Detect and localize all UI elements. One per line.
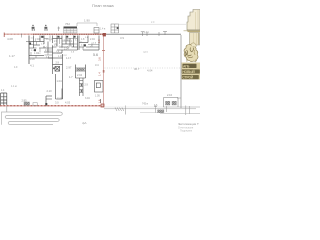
svg-text:План этажа: План этажа [92,3,114,8]
svg-text:2.85: 2.85 [22,99,28,103]
bottom-left narrow room stack [1,93,7,105]
tan leafy blob mass right side [184,43,198,62]
extra fine structure lines in cluster [29,36,99,59]
svg-text:2.04: 2.04 [77,73,83,77]
tiny room labels in cluster [34,38,95,58]
svg-text:742 в: 742 в [142,103,149,106]
small mark left of porch [58,27,61,32]
staircase ladder [80,78,84,96]
top wall left light segment [4,33,33,35]
tall left room 1.04 [56,74,63,99]
small tick below wall left [21,34,23,38]
svg-text:1.6: 1.6 [98,39,101,43]
bracket line above wall [77,23,97,26]
tick T down at 143 [141,32,145,37]
red junction block at wall end [101,104,105,108]
slash hash marks [115,106,190,116]
square room right of ladder [95,81,104,93]
right mid room block [76,65,86,79]
svg-text:31.5: 31.5 [57,98,62,101]
svg-text:1.44: 1.44 [144,30,150,34]
faint long line above big room [119,23,186,25]
svg-text:НОВЫЙ: НОВЫЙ [182,70,195,74]
second thin dim line [140,111,157,113]
stub at x29 top tick [26,41,29,43]
svg-text:2.04: 2.04 [90,38,95,41]
svg-text:5.6: 5.6 [93,53,98,57]
svg-text:2.04: 2.04 [35,38,40,41]
tan stamp text block [182,63,201,80]
svg-text:3.9: 3.9 [120,36,124,40]
dimension line along bottom [104,108,196,110]
bottom middle rooms [46,89,62,106]
svg-text:1.17: 1.17 [66,56,72,60]
mid stair/elevator block [48,54,63,74]
svg-text:3.6: 3.6 [97,57,101,61]
svg-text:4.04: 4.04 [147,69,153,73]
svg-text:1.08: 1.08 [30,57,36,61]
room block A horizontals [29,41,44,43]
porch block above wall: dark top bar + light grid body [64,28,78,33]
room block A verticals [33,36,35,49]
top wall main hatched segment [33,33,107,35]
bottom right structure above wall [164,98,179,108]
svg-text:М.У: М.У [144,50,149,54]
serpentine coil bottom-left [2,112,63,125]
dark tick near Г room [45,103,47,105]
svg-text:Подрядчик: Подрядчик [180,130,193,133]
left vertical wall x=29 [28,36,30,65]
svg-text:Экспликация Т: Экспликация Т [178,122,199,126]
small grid table right of red junction [111,24,119,33]
svg-text:3.04: 3.04 [85,97,90,100]
door opening gaps (white) [37,43,87,50]
hydrant marker symbol 1 above wall [32,25,35,31]
hatched block on dim line [157,110,164,113]
window block above bottom wall left [24,102,30,105]
svg-text:фА: фА [82,121,86,125]
svg-text:2.97: 2.97 [66,66,72,70]
svg-text:2.04: 2.04 [64,48,69,51]
svg-text:1.1 м: 1.1 м [11,85,17,88]
svg-text:1.90: 1.90 [84,19,90,23]
tiny door ticks [35,40,92,48]
svg-text:2.10: 2.10 [167,93,173,97]
svg-text:2.10: 2.10 [47,89,53,93]
block B horizontals [53,38,63,40]
svg-text:1.7: 1.7 [69,75,73,79]
extra tiny label speckle [31,37,97,59]
svg-text:4.03: 4.03 [65,101,71,105]
left end red tick [3,33,5,38]
svg-text:1.04: 1.04 [57,79,63,83]
dark hatched blocks inside cluster [41,36,43,38]
svg-text:СТРОЙ: СТРОЙ [182,76,193,80]
svg-text:4.08: 4.08 [7,37,13,41]
small shapes near 160 on wall [159,32,167,37]
svg-text:1.4 в: 1.4 в [100,28,106,31]
red vertical wall x=103.5 [103,36,105,106]
svg-text:1.4: 1.4 [97,72,101,76]
svg-text:1.05: 1.05 [95,95,100,98]
dotted mid line of big room [105,67,181,69]
tick at 147 [146,32,148,36]
svg-text:3.0: 3.0 [55,101,59,105]
hydrant marker symbol 2 above wall [44,25,47,31]
svg-text:АГБ: АГБ [183,64,190,68]
bottom red wall [0,105,104,107]
right wall of big room [180,35,182,108]
svg-text:762: 762 [65,22,70,26]
tan tower structure top right [184,10,201,46]
svg-text:3.4: 3.4 [95,63,99,67]
svg-text:1.17: 1.17 [9,54,15,58]
red labels near vertical wall (rotated) [97,57,101,104]
svg-text:4.1: 4.1 [30,64,34,68]
svg-text:1.6: 1.6 [97,99,101,103]
block B verticals [56,36,58,48]
block C verticals [78,36,80,51]
block C horizontals [79,42,88,44]
small step block right of porch [94,28,99,34]
extra block on wall near x=34 [33,103,37,106]
top wall thin right segment [107,34,182,36]
svg-text:36.7: 36.7 [134,67,140,71]
big room bottom gray wall segment [163,106,200,108]
